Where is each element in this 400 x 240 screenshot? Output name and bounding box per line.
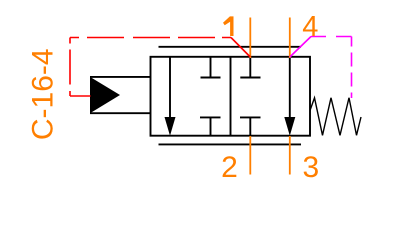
pilot leader dashed red: diagonal to port 1	[231, 38, 250, 58]
spring	[310, 98, 361, 136]
drain leader dashed magenta: horizontal run	[311, 36, 352, 38]
blocked port T bottom-left position	[200, 117, 221, 135]
pilot leader dashed red: stub to triangle	[70, 95, 91, 97]
svg-text:3: 3	[302, 151, 319, 184]
blocked port T bottom-right position	[240, 117, 261, 135]
infinite-positions line bottom	[159, 143, 302, 145]
svg-text:4: 4	[302, 11, 318, 43]
pilot leader dashed red: vertical riser	[69, 38, 71, 97]
port 3 line	[289, 136, 291, 175]
valve body outline	[151, 57, 311, 136]
flow path arrow left position	[165, 57, 176, 136]
flow path arrow right position	[284, 57, 295, 136]
port 2 line	[249, 136, 251, 175]
port label 1	[223, 16, 234, 36]
drain leader dashed magenta: diagonal from port 4	[290, 37, 311, 58]
blocked port T top-left position	[201, 57, 221, 78]
svg-text:C-16-4: C-16-4	[27, 48, 60, 140]
pilot leader dashed red: horizontal run	[70, 37, 231, 39]
port 1 line	[249, 18, 251, 59]
port 4 line	[289, 18, 291, 59]
blocked port T top-right position	[240, 57, 260, 78]
drain leader dashed magenta: vertical drop to spring	[351, 37, 353, 99]
infinite-positions line top	[159, 46, 302, 48]
position divider	[230, 57, 232, 136]
pilot pressure triangle	[90, 77, 120, 113]
svg-text:2: 2	[221, 151, 238, 184]
pilot box lines	[90, 77, 150, 113]
